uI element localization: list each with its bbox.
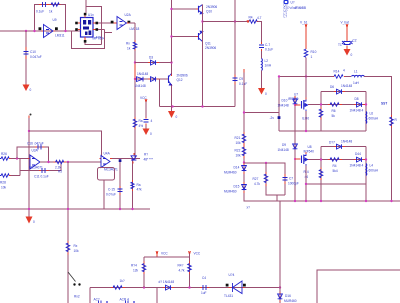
capacitor C3: [144, 117, 153, 126]
wire gate rail: [294, 96, 296, 201]
svg-text:0: 0: [265, 92, 267, 96]
svg-text:Q12: Q12: [177, 78, 183, 82]
svg-text:C10: C10: [30, 50, 36, 54]
wire R4 to bypass chain: [258, 22, 262, 45]
svg-text:U8: U8: [308, 145, 312, 149]
wire R28 link: [11, 175, 21, 177]
svg-text:1mH: 1mH: [265, 64, 272, 68]
svg-text:2N3906: 2N3906: [205, 46, 216, 50]
svg-text:C-15: C-15: [108, 188, 115, 192]
svg-text:5k4: 5k4: [333, 169, 338, 173]
svg-text:Rx2: Rx2: [74, 295, 80, 299]
junction: [134, 78, 136, 80]
wire mosfet2 source drop: [305, 166, 307, 202]
svg-text:Q11: Q11: [205, 42, 211, 46]
svg-text:R21: R21: [235, 136, 241, 140]
junction: [170, 35, 172, 37]
node Vbat: [341, 21, 349, 27]
wire box drop: [103, 180, 105, 209]
svg-text:Rx: Rx: [74, 244, 78, 248]
diode D11: [131, 153, 154, 164]
svg-text:uF?uBB: uF?uBB: [295, 6, 307, 10]
IC U1 multiplier: [81, 13, 105, 41]
svg-text:1uH: 1uH: [353, 81, 360, 85]
wire T1 base branch: [172, 8, 199, 10]
svg-text:D3: D3: [149, 56, 153, 60]
resistor R13 on right rail: [390, 115, 398, 128]
svg-text:VCC: VCC: [161, 252, 168, 256]
diode D7: [329, 140, 352, 150]
svg-text:4.7: 4.7: [257, 16, 262, 20]
transistor Q12 2N3906: [169, 63, 188, 107]
resistor R22: [235, 145, 246, 158]
wire: [305, 57, 307, 97]
svg-text:D6: D6: [330, 85, 334, 89]
junction: [265, 162, 267, 164]
junction: [134, 61, 136, 63]
svg-text:D15: D15: [234, 185, 240, 189]
resistor R30: [111, 279, 125, 289]
ground 0: [258, 88, 267, 96]
svg-text:4.7k: 4.7k: [254, 182, 260, 186]
svg-text:1k?: 1k?: [120, 279, 125, 283]
wire cross link: [29, 131, 102, 156]
wire: [261, 51, 263, 59]
junction: [131, 208, 133, 210]
svg-text:R14: R14: [334, 70, 340, 74]
junction: [279, 286, 281, 288]
transistor Q10 2N3906: [196, 5, 217, 14]
svg-text:U2A: U2A: [125, 13, 132, 17]
svg-text:1N4148: 1N4148: [278, 104, 289, 108]
diode D14: [224, 163, 246, 175]
wire lower block top: [321, 146, 366, 148]
wire Vbus column: [305, 27, 307, 50]
resistor R17 vertical: [304, 168, 323, 181]
svg-text:U?4: U?4: [229, 273, 235, 277]
op-amp U9: [42, 18, 65, 38]
junction: [278, 75, 280, 77]
junction: [243, 111, 245, 113]
junction node A: [25, 30, 27, 32]
resistor R32: [178, 262, 192, 275]
op-amp U2A: [114, 13, 140, 31]
wire VCC top row: [144, 256, 190, 258]
svg-text:L4: L4: [370, 164, 374, 168]
wire feed to right rail: [364, 77, 392, 202]
svg-text:1N4148: 1N4148: [137, 72, 148, 76]
svg-text:0: 0: [33, 220, 35, 224]
wire riser row2 to rail: [159, 79, 161, 107]
wire lower block bottom: [306, 183, 366, 185]
node stub: [243, 69, 245, 73]
svg-text:TL431: TL431: [224, 294, 233, 298]
op-amp U9 pin squares: [39, 27, 42, 30]
svg-text:IRF540: IRF540: [304, 150, 315, 154]
resistor R27: [253, 172, 268, 186]
svg-text:600uH: 600uH: [369, 117, 379, 121]
junction: [305, 200, 307, 202]
svg-text:IRF540: IRF540: [288, 97, 299, 101]
svg-text:1N4148 4: 1N4148 4: [350, 109, 364, 113]
diode D3: [148, 56, 159, 66]
svg-text:2N3906: 2N3906: [206, 5, 217, 9]
resistor R4: [247, 16, 262, 24]
junction: [33, 30, 35, 32]
svg-text:4: 4: [151, 119, 153, 123]
svg-text:x?: x?: [247, 206, 251, 210]
svg-text:C16 .047uF: C16 .047uF: [27, 142, 44, 146]
svg-text:R26: R26: [1, 152, 7, 156]
wire snubber left leg: [266, 163, 285, 195]
svg-text:SST: SST: [381, 102, 387, 106]
wire T2 base branch: [172, 36, 199, 38]
diode D17: [159, 280, 175, 290]
svg-text:U4A: U4A: [104, 152, 111, 156]
wire U4 riser: [119, 159, 121, 210]
svg-text:V_b1: V_b1: [300, 21, 308, 25]
svg-text:MUR460: MUR460: [284, 299, 297, 303]
svg-text:R4?: R4?: [178, 264, 184, 268]
wire drop at left: [89, 288, 91, 303]
bottom right block border: [317, 270, 400, 303]
wire input column: [28, 118, 30, 209]
diode D4: [135, 72, 148, 82]
wire bottom feed row: [90, 287, 280, 289]
wire divider column: [244, 73, 400, 202]
wire emitter row: [203, 21, 249, 23]
wire VCC column: [189, 254, 191, 288]
diode D10: [278, 99, 298, 108]
resistor R47k on column: [131, 180, 142, 192]
svg-text:1N4148: 1N4148: [341, 140, 352, 144]
svg-text:MC34071: MC34071: [29, 166, 43, 170]
svg-text:Ra: Ra: [139, 119, 143, 123]
inductor L4: [366, 164, 379, 176]
svg-text:0: 0: [150, 132, 152, 136]
svg-text:Q10: Q10: [206, 10, 212, 14]
resistor R10: [304, 49, 316, 59]
junction: [305, 130, 307, 132]
svg-text:Ra: Ra: [137, 183, 141, 187]
svg-text:1N4148: 1N4148: [341, 84, 352, 88]
svg-text:L?: L?: [284, 15, 288, 19]
capacitor C8: [36, 2, 53, 14]
svg-text:d? 1N4148: d? 1N4148: [159, 280, 175, 284]
svg-text:1k: 1k: [49, 10, 53, 14]
junction: [171, 105, 173, 107]
svg-text:600uH: 600uH: [369, 169, 379, 173]
junction: [365, 103, 367, 105]
wire red net segment: [134, 63, 136, 78]
capacitor C13: [106, 186, 123, 197]
svg-text:R4: R4: [333, 164, 337, 168]
svg-text:R?: R?: [144, 153, 148, 157]
svg-text:D9: D9: [282, 143, 286, 147]
diode D9b: [350, 152, 366, 168]
junction: [28, 130, 30, 132]
ground 0: [344, 46, 353, 58]
svg-text:C2: C2: [353, 39, 357, 43]
svg-text:C9: C9: [239, 77, 243, 81]
svg-text:D44: D44: [355, 152, 361, 156]
svg-text:Rx: Rx: [126, 42, 130, 46]
op-amp U2 pin squares: [111, 21, 114, 24]
ground 0 arrow below rail: [168, 107, 178, 120]
svg-text:1uF: 1uF: [201, 291, 207, 295]
svg-text:2N3906: 2N3906: [177, 74, 188, 78]
svg-text:D16: D16: [285, 294, 291, 298]
wire upper block bottom: [279, 130, 366, 132]
svg-text:1: 1: [311, 55, 313, 59]
wire mosfet source drop: [305, 111, 307, 131]
shunt reg U14 pins: [226, 284, 229, 287]
svg-text:MC34071: MC34071: [104, 168, 118, 172]
op-amp U3A: [28, 149, 43, 170]
junction: [320, 158, 322, 160]
resistor R7 horizontal: [328, 158, 342, 173]
wire IC top loop: [86, 7, 102, 45]
wire lower mid row: [308, 159, 366, 161]
wire lower right leg: [365, 147, 367, 202]
wire feedback loop U9: [35, 5, 66, 32]
svg-text:U1x: U1x: [88, 13, 94, 17]
mosfet U7 IRF540: [288, 93, 309, 121]
svg-text:LM311: LM311: [55, 34, 65, 38]
svg-text:C7: C7: [289, 177, 293, 181]
capacitor C10: [24, 47, 42, 59]
svg-text:R28: R28: [0, 181, 6, 185]
wire lower left leg: [320, 147, 322, 202]
svg-text:R6: R6: [332, 109, 336, 113]
wire R26 to op-amp: [11, 158, 31, 160]
junction: [64, 30, 66, 32]
wire IC top feed: [85, 0, 87, 13]
wire drop column: [278, 77, 280, 132]
diode D6: [330, 84, 352, 94]
svg-text:48* ***: 48* ***: [144, 158, 154, 162]
svg-text:D?7: D?7: [329, 141, 335, 145]
svg-text:10k: 10k: [236, 141, 242, 145]
inductor L1: [352, 70, 365, 86]
wire IC lower right: [98, 30, 112, 33]
svg-text:C4: C4: [202, 276, 206, 280]
junction: [67, 161, 69, 163]
junction: [16, 157, 18, 159]
svg-text:D14: D14: [234, 166, 240, 170]
svg-text:12k: 12k: [133, 269, 139, 273]
junction: [170, 61, 172, 63]
resistor R6 horizontal: [328, 103, 342, 118]
svg-text:47k: 47k: [137, 188, 143, 192]
node VCC: [189, 252, 201, 256]
junction: [119, 208, 121, 210]
wire bypass column: [145, 102, 147, 118]
wire drop mid: [156, 288, 158, 303]
wire IC right to op-amp U2: [98, 22, 117, 24]
svg-text:D8: D8: [355, 97, 359, 101]
junction: [294, 104, 296, 106]
transistor Q11 2N3906: [196, 31, 216, 50]
diode D8: [350, 97, 366, 113]
wire switch column: [67, 162, 69, 303]
svg-text:1N4148: 1N4148: [278, 148, 289, 152]
capacitor C4: [200, 276, 209, 295]
junction: [294, 200, 296, 202]
capacitor C2 polarized: [338, 39, 357, 48]
feedback box U4: [98, 168, 115, 181]
svg-text:0: 0: [351, 53, 353, 57]
resistor R28: [0, 174, 11, 190]
svg-text:10k: 10k: [74, 249, 80, 253]
node input terminal: [29, 114, 32, 119]
wire IC lower loop: [72, 30, 105, 49]
resistor R6b on center column: [133, 117, 143, 129]
mosfet U8 IRF540: [295, 145, 314, 166]
node VCC mid label: [156, 252, 168, 258]
junction: [188, 286, 190, 288]
svg-text:L1: L1: [354, 70, 358, 74]
wire Q10-Q11 column to rail: [202, 5, 204, 107]
junction: [365, 200, 367, 202]
wire -2v branch: [244, 112, 279, 114]
svg-text:R?4: R?4: [131, 264, 137, 268]
diode D9: [278, 143, 298, 152]
wire snubber drop to rail: [276, 195, 278, 201]
junction: [243, 161, 245, 163]
junction: [305, 183, 307, 185]
op-amp U4A: [100, 152, 119, 172]
wire center column: [133, 23, 136, 209]
shunt regulator U14 TL431: [224, 273, 245, 298]
wire right tall column: [234, 0, 236, 107]
svg-text:MUR460: MUR460: [224, 190, 237, 194]
svg-text:1N4148: 1N4148: [135, 84, 146, 88]
node Vbus: [300, 21, 308, 27]
svg-text:VCC: VCC: [140, 96, 147, 100]
wire U2 output to center column: [129, 22, 135, 24]
wire: [261, 71, 263, 89]
diode D5: [135, 77, 159, 88]
wire left ground rail: [0, 208, 150, 210]
rail VCC text: [140, 96, 147, 102]
wire lower loop U3: [20, 159, 61, 176]
svg-text:T1: T1: [338, 43, 342, 47]
resistor R3: [126, 40, 137, 51]
svg-text:0: 0: [176, 115, 178, 119]
svg-text:C-7: C-7: [265, 43, 270, 47]
svg-text:MUR460: MUR460: [224, 171, 237, 175]
resistor R5: [54, 160, 67, 173]
svg-text:0.0?uF: 0.0?uF: [106, 193, 116, 197]
svg-text:5k: 5k: [332, 114, 336, 118]
junction: [143, 286, 145, 288]
wire output column: [279, 201, 281, 303]
junction: [67, 208, 69, 210]
wire: [345, 76, 351, 78]
junction: [28, 208, 30, 210]
svg-text:1k: 1k: [127, 47, 131, 51]
junction: [390, 200, 392, 202]
wire upper block top: [321, 91, 366, 93]
resistor R14: [333, 69, 345, 79]
resistor R29: [66, 241, 79, 255]
svg-text:R22: R22: [235, 149, 241, 153]
capacitor C9: [233, 75, 248, 87]
svg-text:0: 0: [30, 88, 32, 92]
annotation text block: [284, 3, 307, 18]
junction: [201, 105, 203, 107]
wire U4 output row: [112, 158, 140, 160]
svg-text:C11 0.1uF: C11 0.1uF: [34, 175, 49, 179]
capacitor C16: [27, 142, 45, 150]
svg-text:U7: U7: [294, 93, 298, 97]
capacitor C11: [34, 168, 49, 179]
svg-text:L2: L2: [265, 59, 269, 63]
annotation icon: [284, 0, 295, 5]
svg-text:U?: U?: [291, 1, 295, 5]
wire C10 drop: [25, 31, 27, 84]
svg-text:4?%: 4?%: [96, 36, 103, 40]
svg-text:R5: R5: [58, 170, 62, 174]
capacitor C12: [259, 42, 273, 52]
wire snubber branch top: [244, 163, 285, 195]
junction: [305, 75, 307, 77]
svg-text:0.1uF: 0.1uF: [36, 10, 44, 14]
wire Vbat column: [346, 27, 348, 42]
junction: [170, 8, 172, 10]
wire R34 column: [143, 257, 145, 288]
svg-text:4%: 4%: [139, 124, 144, 128]
svg-text:R27: R27: [253, 177, 259, 181]
svg-text:-2v: -2v: [270, 116, 275, 120]
resistor R21: [235, 132, 246, 145]
svg-text:V_bat: V_bat: [341, 21, 349, 25]
wire collector rail: [160, 106, 236, 108]
svg-text:4.7k: 4.7k: [179, 269, 185, 273]
svg-text:L6: L6: [370, 112, 374, 116]
ground 0 below rail: [26, 209, 36, 224]
wire feed line: [279, 76, 333, 78]
capacitor C7: [283, 174, 299, 186]
svg-text:1N4148 4: 1N4148 4: [350, 164, 364, 168]
svg-text:0.1uF: 0.1uF: [265, 48, 273, 52]
junction: [201, 20, 203, 22]
wire diode row 2: [135, 78, 169, 80]
wire upper right leg: [365, 92, 367, 132]
ground 0: [23, 84, 32, 92]
node square: [119, 159, 122, 162]
inductor L3: [262, 59, 272, 71]
wire left tall column: [171, 0, 173, 63]
svg-text:U3A: U3A: [32, 149, 39, 153]
svg-text:LM318: LM318: [130, 27, 140, 31]
svg-text:10k: 10k: [236, 154, 242, 158]
switch S1: [68, 272, 81, 286]
junction: [365, 158, 367, 160]
svg-text:10k: 10k: [1, 186, 7, 190]
junction: [320, 200, 322, 202]
wire upper mid row: [308, 104, 366, 106]
svg-text:1000pF: 1000pF: [288, 182, 299, 186]
svg-text:0.047uF: 0.047uF: [30, 55, 42, 59]
svg-text:AC?: AC?: [94, 298, 100, 302]
junction: [294, 158, 296, 160]
junction: [320, 103, 322, 105]
inductor L6: [366, 112, 379, 124]
resistor R26: [0, 152, 11, 160]
diode D16: [278, 292, 297, 303]
